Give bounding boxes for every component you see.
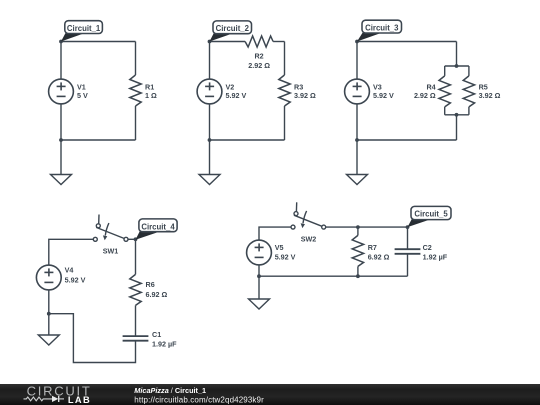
- voltage source V1: [49, 79, 74, 104]
- svg-text:C2: C2: [423, 243, 432, 252]
- node junction parallel top circuit 3: [455, 64, 459, 68]
- wire R5 top lead: [468, 66, 470, 76]
- wire R7 bottom lead: [357, 266, 359, 276]
- svg-text:3.92 Ω: 3.92 Ω: [294, 91, 316, 100]
- node flag Circuit_3: [357, 20, 402, 41]
- svg-text:3.92 Ω: 3.92 Ω: [479, 91, 501, 100]
- svg-text:Circuit_2: Circuit_2: [216, 24, 250, 33]
- svg-text:6.92 Ω: 6.92 Ω: [146, 290, 168, 299]
- wire V1 bottom lead: [60, 104, 62, 140]
- wire bottom rail circuit 2: [210, 139, 285, 141]
- wire C2 bottom lead: [407, 254, 409, 276]
- svg-text:Circuit_5: Circuit_5: [414, 210, 448, 219]
- wire R6 top lead: [135, 239, 137, 274]
- svg-text:SW1: SW1: [103, 247, 119, 256]
- svg-text:5.92 V: 5.92 V: [65, 276, 86, 285]
- svg-text:5 V: 5 V: [77, 91, 88, 100]
- wire parallel bottom rail circuit 3: [445, 114, 469, 116]
- wire right rail top circuit 2: [284, 42, 286, 76]
- node junction bottom-left circuit 3: [355, 138, 359, 142]
- voltage source V5: [247, 240, 272, 265]
- svg-text:V4: V4: [65, 266, 74, 275]
- svg-text:5.92 V: 5.92 V: [226, 91, 247, 100]
- svg-text:5.92 V: 5.92 V: [275, 253, 296, 262]
- ground circuit 3: [347, 175, 368, 185]
- svg-text:1.92 µF: 1.92 µF: [152, 340, 177, 349]
- capacitor C1: [123, 336, 149, 341]
- node junction under V4: [47, 312, 51, 316]
- voltage source V2: [197, 79, 222, 104]
- resistor R2: [245, 36, 273, 47]
- wire V3 top lead: [356, 42, 358, 80]
- wire top-left segment circuit 2: [210, 41, 246, 43]
- wire ground stem circuit 5: [258, 276, 260, 299]
- wire bottom rail circuit 1: [61, 139, 136, 141]
- ground circuit 1: [51, 175, 72, 185]
- resistor R6: [130, 274, 141, 305]
- svg-text:5.92 V: 5.92 V: [373, 91, 394, 100]
- switch SW1: [93, 215, 128, 242]
- wire SW2 right contact to top rail circuit 5: [326, 226, 408, 228]
- node junction top-left circuit 2: [208, 40, 212, 44]
- node flag Circuit_4: [136, 219, 178, 240]
- svg-text:R6: R6: [146, 280, 155, 289]
- ground circuit 2: [199, 175, 220, 185]
- footer bar: [0, 383, 540, 405]
- wire V5 bottom lead: [258, 265, 260, 276]
- voltage source V3: [345, 79, 370, 104]
- wire R4 top lead: [444, 66, 446, 76]
- node junction C2 top corner: [406, 225, 410, 229]
- node junction bottom-left circuit 2: [208, 138, 212, 142]
- svg-text:MicaPizza / Circuit_1: MicaPizza / Circuit_1: [134, 386, 206, 395]
- ground circuit 5: [249, 299, 270, 309]
- wire parallel top rail circuit 3: [445, 65, 469, 67]
- wire R2 right lead: [273, 41, 284, 43]
- wire bottom rail circuit 3: [357, 139, 457, 141]
- node junction bottom-left circuit 1: [59, 138, 63, 142]
- wire SW1 left contact to V4: [49, 239, 94, 265]
- wire V2 bottom lead: [209, 104, 211, 140]
- wire R4 bottom lead: [444, 107, 446, 115]
- wire R1 top lead: [135, 42, 137, 76]
- wire bottom rail circuit 5: [259, 275, 408, 277]
- wire V3 bottom lead: [356, 104, 358, 140]
- svg-text:Circuit_3: Circuit_3: [365, 23, 399, 32]
- svg-text:Circuit_4: Circuit_4: [141, 222, 175, 231]
- svg-text:LAB: LAB: [68, 395, 91, 405]
- wire top rail circuit 3: [357, 41, 457, 43]
- node flag Circuit_1: [61, 21, 102, 42]
- resistor R4: [439, 76, 450, 107]
- resistor R1: [130, 75, 141, 106]
- node junction R7 bottom: [356, 274, 360, 278]
- wire ground stem circuit 2: [209, 140, 211, 175]
- wire R3 bottom lead: [284, 106, 286, 140]
- svg-text:6.92 Ω: 6.92 Ω: [368, 253, 390, 262]
- ground circuit 4: [38, 335, 59, 345]
- wire V1 top lead: [60, 42, 62, 80]
- wire ground stem circuit 4: [48, 314, 50, 335]
- wire V4 bottom lead: [48, 290, 50, 314]
- svg-text:V5: V5: [275, 243, 284, 252]
- logo resistor zigzag: [24, 397, 53, 401]
- logo diode symbol: [52, 396, 58, 402]
- node junction parallel bottom circuit 3: [455, 113, 459, 117]
- capacitor C2: [395, 249, 421, 254]
- svg-text:2.92 Ω: 2.92 Ω: [248, 61, 270, 70]
- node junction R7 top: [356, 225, 360, 229]
- wire right feed down circuit 3: [456, 42, 458, 67]
- svg-text:2.92 Ω: 2.92 Ω: [414, 91, 436, 100]
- svg-text:http://circuitlab.com/ctw2qd42: http://circuitlab.com/ctw2qd4293k9r: [134, 395, 264, 404]
- resistor R7: [352, 235, 363, 266]
- wire C2 top lead: [407, 227, 409, 249]
- wire R6 bottom lead: [135, 305, 137, 336]
- wire ground stem circuit 3: [356, 140, 358, 175]
- node flag Circuit_5: [408, 206, 452, 227]
- node flag Circuit_2: [210, 21, 252, 42]
- wire R7 top lead: [357, 227, 359, 235]
- schematic text labels: [65, 51, 501, 348]
- node junction top-left circuit 3: [355, 40, 359, 44]
- svg-text:1 Ω: 1 Ω: [145, 91, 157, 100]
- wire bottom feed circuit 3: [456, 115, 458, 140]
- wire R1 bottom lead: [135, 106, 137, 140]
- svg-text:C1: C1: [152, 330, 161, 339]
- node junction top-left circuit 1: [59, 40, 63, 44]
- wire bottom return path circuit 4: [49, 314, 136, 363]
- node junction under V5: [257, 274, 261, 278]
- wire R5 bottom lead: [468, 107, 470, 115]
- svg-text:Circuit_1: Circuit_1: [67, 24, 101, 33]
- svg-text:1.92 µF: 1.92 µF: [423, 253, 448, 262]
- wire V2 top lead: [209, 42, 211, 80]
- voltage source V4: [36, 265, 61, 290]
- wire ground stem circuit 1: [60, 140, 62, 175]
- node junction SW1 right circuit 4: [134, 237, 138, 241]
- resistor R3: [279, 75, 290, 106]
- wire top rail circuit 1: [61, 41, 136, 43]
- wire SW1 right contact to node: [128, 238, 136, 240]
- wire SW2 left contact to V5: [259, 227, 291, 240]
- svg-text:SW2: SW2: [301, 235, 317, 244]
- svg-text:R2: R2: [254, 51, 263, 60]
- switch SW2: [291, 202, 326, 229]
- svg-text:R7: R7: [368, 243, 377, 252]
- resistor R5: [463, 76, 474, 107]
